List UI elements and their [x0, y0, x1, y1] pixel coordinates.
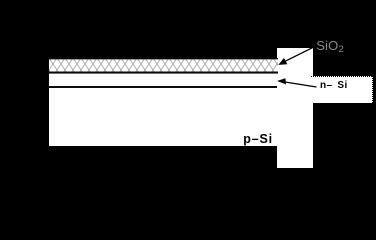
wire arrow to SiO2 layer — [278, 46, 316, 65]
label n- Si — [320, 80, 348, 92]
label p-Si — [243, 132, 273, 147]
marquee dotted border of text box — [311, 76, 373, 103]
node SiO2 hatched oxide layer — [49, 58, 278, 74]
node main white panel (figure body) — [49, 58, 277, 146]
node n-Si layer bottom line — [49, 86, 278, 88]
wire arrow to n-Si layer — [277, 78, 317, 87]
label SiO2 — [316, 38, 344, 57]
node right white column — [277, 48, 313, 168]
node selected label text box (white, marquee) — [311, 76, 374, 103]
